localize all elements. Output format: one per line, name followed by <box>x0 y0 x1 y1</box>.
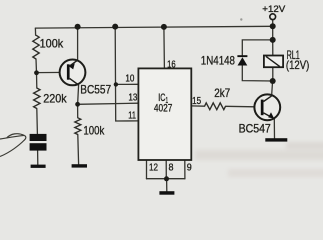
finger nail arc <box>7 134 24 138</box>
resistor R1 100k zigzag <box>33 35 39 59</box>
scan artifact band lower right <box>195 150 323 160</box>
Q2 collector line <box>264 96 272 102</box>
Q1 collector line <box>70 78 79 85</box>
svg-text:9: 9 <box>187 161 192 173</box>
node B junction dot <box>75 102 80 107</box>
Q1 emitter arrow (PNP into base) <box>69 63 75 69</box>
Q2 emitter arrow (NPN out) <box>268 112 274 118</box>
relay RL1 diagonal <box>266 56 280 66</box>
svg-text:+12V: +12V <box>262 4 286 15</box>
svg-text:(12V): (12V) <box>286 58 309 72</box>
touch plate lower <box>30 143 47 150</box>
svg-text:2k7: 2k7 <box>214 86 230 100</box>
wire IC bus to ground <box>166 179 168 192</box>
wire pin 16 <box>163 27 166 69</box>
wire rail down third column <box>115 27 138 121</box>
resistor R4 2k7 zigzag <box>205 103 226 110</box>
wire relay bottom to node C <box>272 67 274 81</box>
node A junction dot <box>34 70 39 75</box>
wire pin 10 <box>116 83 138 85</box>
op-amp U1 IC box 4027 <box>138 68 191 160</box>
junction dot rail-col3 <box>112 24 118 30</box>
wire node C to BC547 collector <box>272 81 273 96</box>
node C junction dot <box>270 78 276 84</box>
svg-text:11: 11 <box>128 110 136 122</box>
svg-text:10: 10 <box>125 73 134 85</box>
svg-text:1N4148: 1N4148 <box>201 53 235 67</box>
wire R3 bottom to ground <box>77 135 80 165</box>
Q1 base bar <box>67 64 70 79</box>
wire pin 9 <box>184 160 186 179</box>
wire rail node to relay top <box>272 40 274 56</box>
ground under IC <box>159 191 174 195</box>
svg-text:8: 8 <box>169 162 174 174</box>
wire collector BC557 down to node B <box>78 85 79 104</box>
wire R2 bottom to touch plate <box>36 109 39 135</box>
svg-text:13: 13 <box>128 91 137 103</box>
resistor R3 100k zigzag <box>75 118 81 135</box>
junction dot rail-12V <box>270 23 276 29</box>
Q2 emitter line <box>264 113 275 119</box>
wire plate bottom to ground <box>37 151 39 165</box>
scan artifact patch right of BC547 ground <box>286 142 323 150</box>
wire base of BC557 <box>37 71 68 73</box>
svg-text:100k: 100k <box>83 124 105 138</box>
wire emitter BC547 to ground <box>273 119 275 138</box>
touch plate upper <box>30 134 47 141</box>
wire junction A to R2 <box>36 73 38 88</box>
scan speck <box>240 18 242 20</box>
wire node B to R3 <box>77 104 79 118</box>
Q2 base bar <box>261 100 264 116</box>
wire pin 8 <box>165 160 167 179</box>
svg-text:12: 12 <box>149 162 158 174</box>
ground under touch plates <box>31 165 46 168</box>
svg-text:16: 16 <box>167 58 176 70</box>
junction dot relay-diode top <box>270 37 276 43</box>
ground under BC547 <box>265 138 287 141</box>
resistor R2 220k zigzag <box>34 88 40 109</box>
diode D1 cathode bar <box>237 55 247 57</box>
svg-text:BC547: BC547 <box>239 121 271 135</box>
Q1 emitter line <box>70 60 78 66</box>
wire emitter BC557 to rail <box>77 27 79 61</box>
wire R1 bottom to junction A <box>35 59 38 73</box>
finger tip curl and lower sweep <box>0 135 26 156</box>
wire left column down to R1 <box>34 28 36 35</box>
relay RL1 coil box <box>264 56 283 68</box>
junction dot rail-pin16 <box>161 24 167 30</box>
+12V supply terminal circle <box>270 14 276 20</box>
svg-text:220k: 220k <box>43 92 67 106</box>
ground under R3 <box>72 164 87 167</box>
scan artifact band lower right 2 <box>228 169 323 177</box>
svg-text:4027: 4027 <box>154 102 173 114</box>
transistor Q2 BC547 circle <box>254 94 280 120</box>
wire ground bus under IC <box>147 178 185 180</box>
wire R4 to base BC547 <box>226 105 261 108</box>
junction dot col3-pin10 <box>114 82 118 86</box>
diode D1 triangle <box>238 57 248 65</box>
wire diode branch top <box>242 40 272 55</box>
finger sketch top line <box>0 135 24 139</box>
junction dot IC bus <box>164 176 169 181</box>
wire diode anode to node C <box>242 65 272 81</box>
wire +12V terminal to rail <box>272 20 274 40</box>
wire pin 15 stub <box>191 105 204 107</box>
wire pin 12 <box>146 160 148 179</box>
svg-text:100k: 100k <box>40 37 64 51</box>
transistor Q1 BC557 circle <box>60 60 86 86</box>
svg-text:BC557: BC557 <box>80 83 111 97</box>
svg-text:15: 15 <box>192 95 201 107</box>
wire node B to IC pin 13 <box>78 103 139 104</box>
junction dot rail-BC557 <box>75 24 81 30</box>
wire top supply rail <box>35 26 272 28</box>
